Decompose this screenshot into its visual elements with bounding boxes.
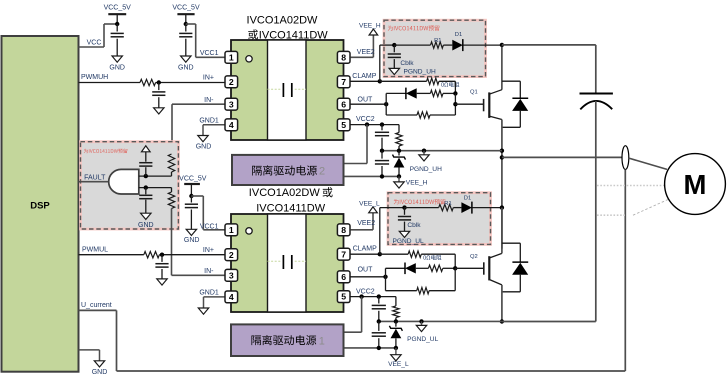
wire PWMUL (79, 247, 144, 255)
node OUT junction (bot) (383, 275, 387, 279)
pin 4 U2 (225, 291, 238, 303)
AND gate G1 (109, 169, 139, 194)
diode DF1 (freewheel Q1) (512, 81, 528, 127)
wire DSP gnd stub (79, 350, 100, 361)
current sensor CT1 (622, 146, 629, 170)
wire 0ohm to gate node (439, 81, 456, 93)
svg-text:VEE2: VEE2 (357, 220, 375, 227)
ground GND (DSP) (92, 361, 108, 376)
wire clamp to 0ohm (bot) (380, 253, 408, 255)
wire D1 to phase (472, 207, 502, 209)
node vee j1 (380, 174, 384, 178)
resistor 0ohm (bottom) (408, 251, 441, 260)
wire to IN+ pin2 U2 (159, 247, 224, 255)
wire res to node (bottom) (443, 267, 455, 269)
power rail VCC_5V (A) (104, 4, 132, 24)
svg-text:8: 8 (341, 52, 346, 62)
pin-1 marker U1 (246, 56, 252, 62)
svg-text:Cblk: Cblk (400, 60, 414, 67)
wire to R1 (top) (394, 44, 430, 46)
node gate in2 (144, 185, 148, 189)
svg-text:1: 1 (229, 225, 234, 235)
pin 1 U2 (225, 224, 238, 236)
wire Q2 collector (501, 208, 503, 254)
capacitor C-pwmul (155, 255, 168, 279)
resistor R-vee (bottom) (393, 297, 399, 322)
node pgnd j1 (380, 149, 384, 153)
svg-text:IVCO1411DW: IVCO1411DW (259, 29, 328, 41)
power arrow VEE_L (359, 201, 380, 213)
node DC- junction (500, 319, 504, 323)
svg-text:3: 3 (229, 270, 234, 280)
svg-text:VCC: VCC (87, 40, 102, 47)
wire Q2 emitter-diode (502, 291, 520, 293)
wire sensor down (624, 170, 626, 372)
wire R1-D1 (top) (443, 44, 452, 46)
svg-text:GND1: GND1 (199, 118, 219, 125)
wire phase W diagonal (633, 200, 668, 216)
dotted phase V (597, 185, 665, 187)
wire clamp to 0ohm (380, 80, 427, 82)
ground (C-pwmuh) (154, 108, 164, 114)
svg-text:Q1: Q1 (470, 90, 478, 96)
svg-text:PWMUL: PWMUL (82, 247, 108, 254)
node gate junction (bot) (453, 266, 457, 270)
node phase-D1 junction (500, 205, 504, 209)
diode DF2 (freewheel Q2) (512, 243, 528, 292)
svg-text:5: 5 (341, 292, 346, 302)
svg-text:PGND_UH: PGND_UH (404, 69, 436, 76)
svg-text:GND: GND (196, 143, 212, 150)
label U1 title (247, 14, 329, 41)
power supply box PS1 (231, 324, 344, 356)
wire R-g2 to IN- (bottom) (171, 209, 173, 276)
svg-text:VCC2: VCC2 (356, 116, 375, 123)
svg-text:IVCO1411DW: IVCO1411DW (256, 202, 325, 214)
pin 1 U1 (225, 51, 238, 63)
wire phase to sensor (502, 156, 622, 158)
capacitor C1 (111, 24, 124, 56)
svg-text:GND: GND (109, 64, 125, 71)
capacitor C2 (179, 24, 192, 56)
ground PGND_UH (row) (410, 151, 442, 173)
resistor 0ohm (top) (427, 78, 460, 87)
pin 8 U1 (337, 51, 350, 63)
svg-text:PGND_UL: PGND_UL (393, 238, 424, 245)
svg-text:GND: GND (138, 222, 154, 229)
svg-text:IN+: IN+ (203, 74, 214, 81)
resistor R1 (bottom) (439, 201, 454, 211)
diode D-off (top) (406, 88, 417, 100)
node vee j2 (397, 174, 401, 178)
svg-text:DSP: DSP (30, 201, 50, 212)
transistor Q1 (470, 90, 502, 120)
wire CLAMP pin7 U2 (351, 246, 380, 255)
node CLAMP junction (bot) (378, 252, 382, 256)
ground (C-pwmul) (157, 279, 167, 285)
svg-text:VEE_L: VEE_L (388, 361, 409, 368)
reserved box (Cblk top, IVCO1411DW) (384, 20, 486, 76)
resistor R-off (bottom) (417, 288, 429, 294)
node VCC2 j1 (365, 122, 369, 126)
pin 6 U2 (337, 271, 350, 283)
wire gate Q2 (455, 267, 484, 269)
wire sensor to motor (629, 158, 667, 169)
pin 2 U2 (225, 249, 238, 261)
svg-text:VCC_5V: VCC_5V (172, 4, 200, 11)
wire clamp riser (bot) (380, 208, 405, 255)
svg-text:R1: R1 (434, 38, 441, 44)
node pgnd j3 (bot) (419, 319, 423, 323)
wire gate Q1 (455, 103, 483, 105)
capacitor C-vcc2a (top) (375, 125, 389, 151)
capacitor C3 (185, 196, 198, 229)
svg-text:IVCO1A02DW: IVCO1A02DW (249, 187, 321, 199)
resistor R-off (top) (417, 112, 430, 118)
svg-text:OUT: OUT (358, 97, 374, 104)
wire OUT pin6 U1 (351, 97, 387, 105)
capacitor C-bus (580, 94, 613, 110)
svg-text:CLAMP: CLAMP (352, 73, 376, 80)
capacitor C-g2 (139, 188, 152, 214)
wire Q1 emitter-diode (502, 126, 520, 128)
wire to IN+ pin2 U1 (156, 74, 225, 82)
pin 7 U1 (337, 76, 350, 88)
node IN+ junction (bot) (160, 253, 164, 257)
wire VCC2 riser to supply (344, 125, 368, 164)
svg-text:Q2: Q2 (470, 254, 478, 260)
svg-text:IN-: IN- (204, 97, 214, 104)
wire diode-res (top) (417, 92, 431, 94)
dotted phase W (597, 214, 626, 216)
wire FAULT (79, 175, 109, 182)
wire GND1 pin4 U2 (199, 290, 224, 308)
node DC+ rail junction (500, 43, 504, 47)
wire CLAMP pin7 U1 (351, 73, 380, 81)
svg-text:VEE2: VEE2 (357, 49, 375, 56)
svg-text:6: 6 (341, 99, 346, 109)
svg-text:1: 1 (319, 335, 325, 347)
ground GND (C-g2) (138, 213, 154, 229)
diode D1 (top) (452, 32, 463, 51)
svg-text:OUT: OUT (358, 267, 374, 274)
ground VEE_L (bottom) (388, 348, 409, 368)
svg-text:2: 2 (229, 250, 234, 260)
wire GND1 pin4 U1 (199, 118, 224, 136)
svg-text:R1: R1 (444, 201, 451, 207)
wire IN- to pin3 U2 (172, 268, 225, 276)
node OUT junction (384, 102, 388, 106)
svg-text:GND: GND (92, 369, 108, 376)
svg-text:VCC2: VCC2 (356, 289, 375, 296)
wire Q2 emitter down (501, 285, 503, 322)
svg-text:M: M (684, 169, 707, 200)
wire out up-branch left (386, 93, 406, 115)
node gate junction (top) (453, 102, 457, 106)
svg-text:VEE_H: VEE_H (359, 23, 381, 30)
wire VCC2 pin5 U1 (351, 116, 400, 124)
ground PGND_UL (row) (407, 321, 438, 343)
node Cblk junction (bot) (402, 205, 406, 209)
node gate in1 (144, 174, 148, 178)
capacitor C-vcc2a (bottom) (372, 297, 386, 322)
node VCC2 j2 (380, 122, 384, 126)
resistor R-g2 (168, 188, 174, 209)
wire PGND row (top) (382, 150, 502, 152)
resistor R1 (top) (431, 38, 444, 49)
op-amp U2 gate driver IVCO1411DW body (231, 214, 344, 312)
wire out branches (bot) (386, 268, 406, 290)
wire U_current (79, 302, 626, 371)
diode D1 (bottom) (461, 195, 472, 213)
svg-text:PWMUH: PWMUH (81, 74, 108, 81)
svg-text:PGND_UH: PGND_UH (410, 166, 442, 173)
pin 8 U2 (337, 224, 350, 236)
isolation barrier cap U1 (268, 83, 307, 97)
wire Q1 collector (501, 45, 503, 90)
ground PGND_UH (Cblk) (389, 68, 436, 75)
motor M1 (665, 154, 726, 215)
wire res to node (top) (443, 92, 455, 94)
node phase output junction (500, 155, 504, 159)
svg-text:GND1: GND1 (199, 290, 219, 297)
svg-text:VCC_5V: VCC_5V (179, 175, 207, 182)
node VCC1 junction C (189, 194, 193, 198)
node pgnd j3 (422, 149, 426, 153)
node VCC1 junction B (184, 22, 188, 26)
zener DZ1 (top) (393, 151, 406, 177)
pin 5 U2 (337, 291, 350, 303)
svg-text:7: 7 (341, 249, 346, 259)
svg-text:D1: D1 (455, 32, 462, 38)
resistor R-on (top) (430, 90, 443, 96)
ground GND (C1) (109, 56, 125, 71)
wire VEE row (top) (344, 175, 400, 177)
diode D-off (bottom) (405, 263, 416, 275)
svg-text:2: 2 (319, 166, 325, 178)
node vee j2 (bot) (394, 346, 398, 350)
power supply box PS2 (232, 155, 344, 185)
svg-text:Cblk: Cblk (407, 222, 421, 229)
svg-text:VCC1: VCC1 (200, 223, 219, 230)
svg-text:PGND_UL: PGND_UL (407, 336, 438, 343)
svg-text:VEE_L: VEE_L (359, 201, 380, 208)
svg-text:6: 6 (341, 272, 346, 282)
capacitor Cblk (bottom) (398, 208, 421, 232)
node phase PGND junction (500, 149, 504, 153)
wire R1-D1 (bottom) (453, 207, 461, 209)
wire VCC from DSP (79, 24, 118, 47)
capacitor Cblk (top) (388, 45, 415, 68)
zener DZ2 (bottom) (389, 321, 402, 348)
svg-text:VCC1: VCC1 (200, 50, 219, 57)
svg-text:1: 1 (229, 52, 234, 62)
svg-text:GND: GND (184, 237, 200, 244)
ground PGND_UL (Cblk) (393, 231, 424, 245)
pin-1 marker U2 (246, 228, 252, 234)
wire gate input 1 (139, 175, 172, 177)
DSP block U3 (2, 36, 79, 372)
pin 5 U1 (337, 119, 350, 131)
wire VCC1 to pin1 U1 (186, 24, 225, 57)
wire to R1 (bottom) (405, 207, 439, 209)
pin 7 U2 (337, 248, 350, 260)
ground VEE_H (top) (394, 176, 428, 188)
ground GND (C3) (184, 229, 200, 244)
node vee j1 (bot) (377, 346, 381, 350)
pin 3 U1 (225, 98, 238, 110)
wire VEE2 pin8 U1 (351, 35, 375, 57)
svg-text:IVCO1A02DW: IVCO1A02DW (247, 14, 319, 26)
pin 6 U1 (337, 98, 350, 110)
resistor R-g1 (168, 154, 174, 176)
wire DC- rail right (502, 321, 596, 323)
wire VCC1 to pin1 U2 (191, 196, 224, 230)
pin 4 U1 (225, 119, 238, 131)
node Cblk junction (top) (392, 43, 396, 47)
wire OUT pin6 U2 (351, 267, 386, 277)
power rail VCC_5V (B) (172, 4, 200, 24)
pin 3 U2 (225, 269, 238, 281)
wire VEE2 pin8 U2 (351, 213, 376, 230)
wire out bottom-branch (386, 93, 455, 115)
ground GND1 (bottom) (198, 308, 208, 314)
reserved box (FAULT, IVCO1411DW) (81, 142, 179, 229)
wire PWMUH (79, 74, 141, 83)
node VCC junction A (115, 22, 119, 26)
ground GND1 (top) (196, 136, 212, 151)
svg-text:4: 4 (229, 120, 234, 130)
label U2 title (249, 187, 333, 214)
node CLAMP junction (378, 79, 382, 83)
wire gate input 2 (139, 187, 172, 189)
wire Q1 collector-diode (502, 80, 520, 82)
reserved box (Cblk bottom, IVCO1411DW) (388, 193, 491, 245)
isolation barrier cap U2 (268, 255, 307, 269)
capacitor C-bus lead bottom (595, 101, 597, 322)
svg-text:7: 7 (341, 77, 346, 87)
svg-text:VCC_5V: VCC_5V (104, 4, 132, 11)
svg-text:CLAMP: CLAMP (353, 246, 377, 253)
svg-text:GND: GND (178, 64, 194, 71)
capacitor C-vcc2b (top) (375, 151, 389, 177)
power arrow (C-g1) (142, 146, 151, 152)
wire diode-res (bottom) (416, 267, 429, 269)
wire DC+ rail (502, 44, 596, 46)
wire Q1 emitter down / phase node (501, 120, 503, 249)
capacitor C-g1 (139, 152, 152, 176)
svg-text:4: 4 (229, 292, 234, 302)
capacitor C-bus lead top (595, 45, 597, 94)
power arrow VEE_H (359, 23, 381, 35)
wire IN- to pin3 U1 (172, 97, 225, 154)
power rail VCC_5V (C) (179, 175, 207, 196)
wire VCC2 riser to supply (bot) (344, 297, 362, 333)
capacitor C-vcc2b (bottom) (372, 321, 386, 348)
node gate-top junction (453, 91, 457, 95)
wire out bottom-branch (bot) (386, 268, 456, 290)
wire VEE row (bottom) (344, 347, 396, 349)
svg-text:IN-: IN- (204, 268, 214, 275)
svg-text:VEE_H: VEE_H (406, 180, 428, 187)
node IN+ junction (157, 80, 161, 84)
node pgnd j2 (bot) (394, 319, 398, 323)
node pgnd j2 (397, 149, 401, 153)
svg-text:2: 2 (229, 77, 234, 87)
node pgnd j1 (bot) (377, 319, 381, 323)
resistor R-vee (top) (396, 125, 402, 151)
node VCC2 j2 (bot) (377, 294, 381, 298)
node VCC2 j1 (bot) (359, 294, 363, 298)
wire clamp riser (380, 45, 395, 81)
svg-text:FAULT: FAULT (84, 175, 106, 182)
resistor R-pwmuh (140, 79, 156, 85)
wire PGND row (bottom) (379, 320, 502, 322)
op-amp U1 gate driver IVCO1A02DW body (231, 40, 344, 140)
wire VCC2 pin5 U2 (351, 289, 396, 297)
svg-text:8: 8 (341, 225, 346, 235)
ground GND (C2) (178, 56, 194, 71)
wire Q2 collector-diode (502, 242, 520, 244)
resistor R-pwmul (144, 252, 160, 258)
wire 0ohm to gate node (bot) (421, 254, 455, 268)
svg-text:5: 5 (341, 120, 346, 130)
svg-text:D1: D1 (464, 195, 471, 201)
wire D1 to DC+ rail (463, 44, 502, 46)
svg-text:U_current: U_current (81, 302, 112, 309)
capacitor C-pwmuh (152, 83, 165, 108)
svg-text:IN+: IN+ (203, 247, 214, 254)
transistor Q2 (470, 253, 502, 285)
svg-text:3: 3 (229, 99, 234, 109)
resistor R-on (bottom) (428, 265, 442, 271)
pin 2 U1 (225, 76, 238, 88)
